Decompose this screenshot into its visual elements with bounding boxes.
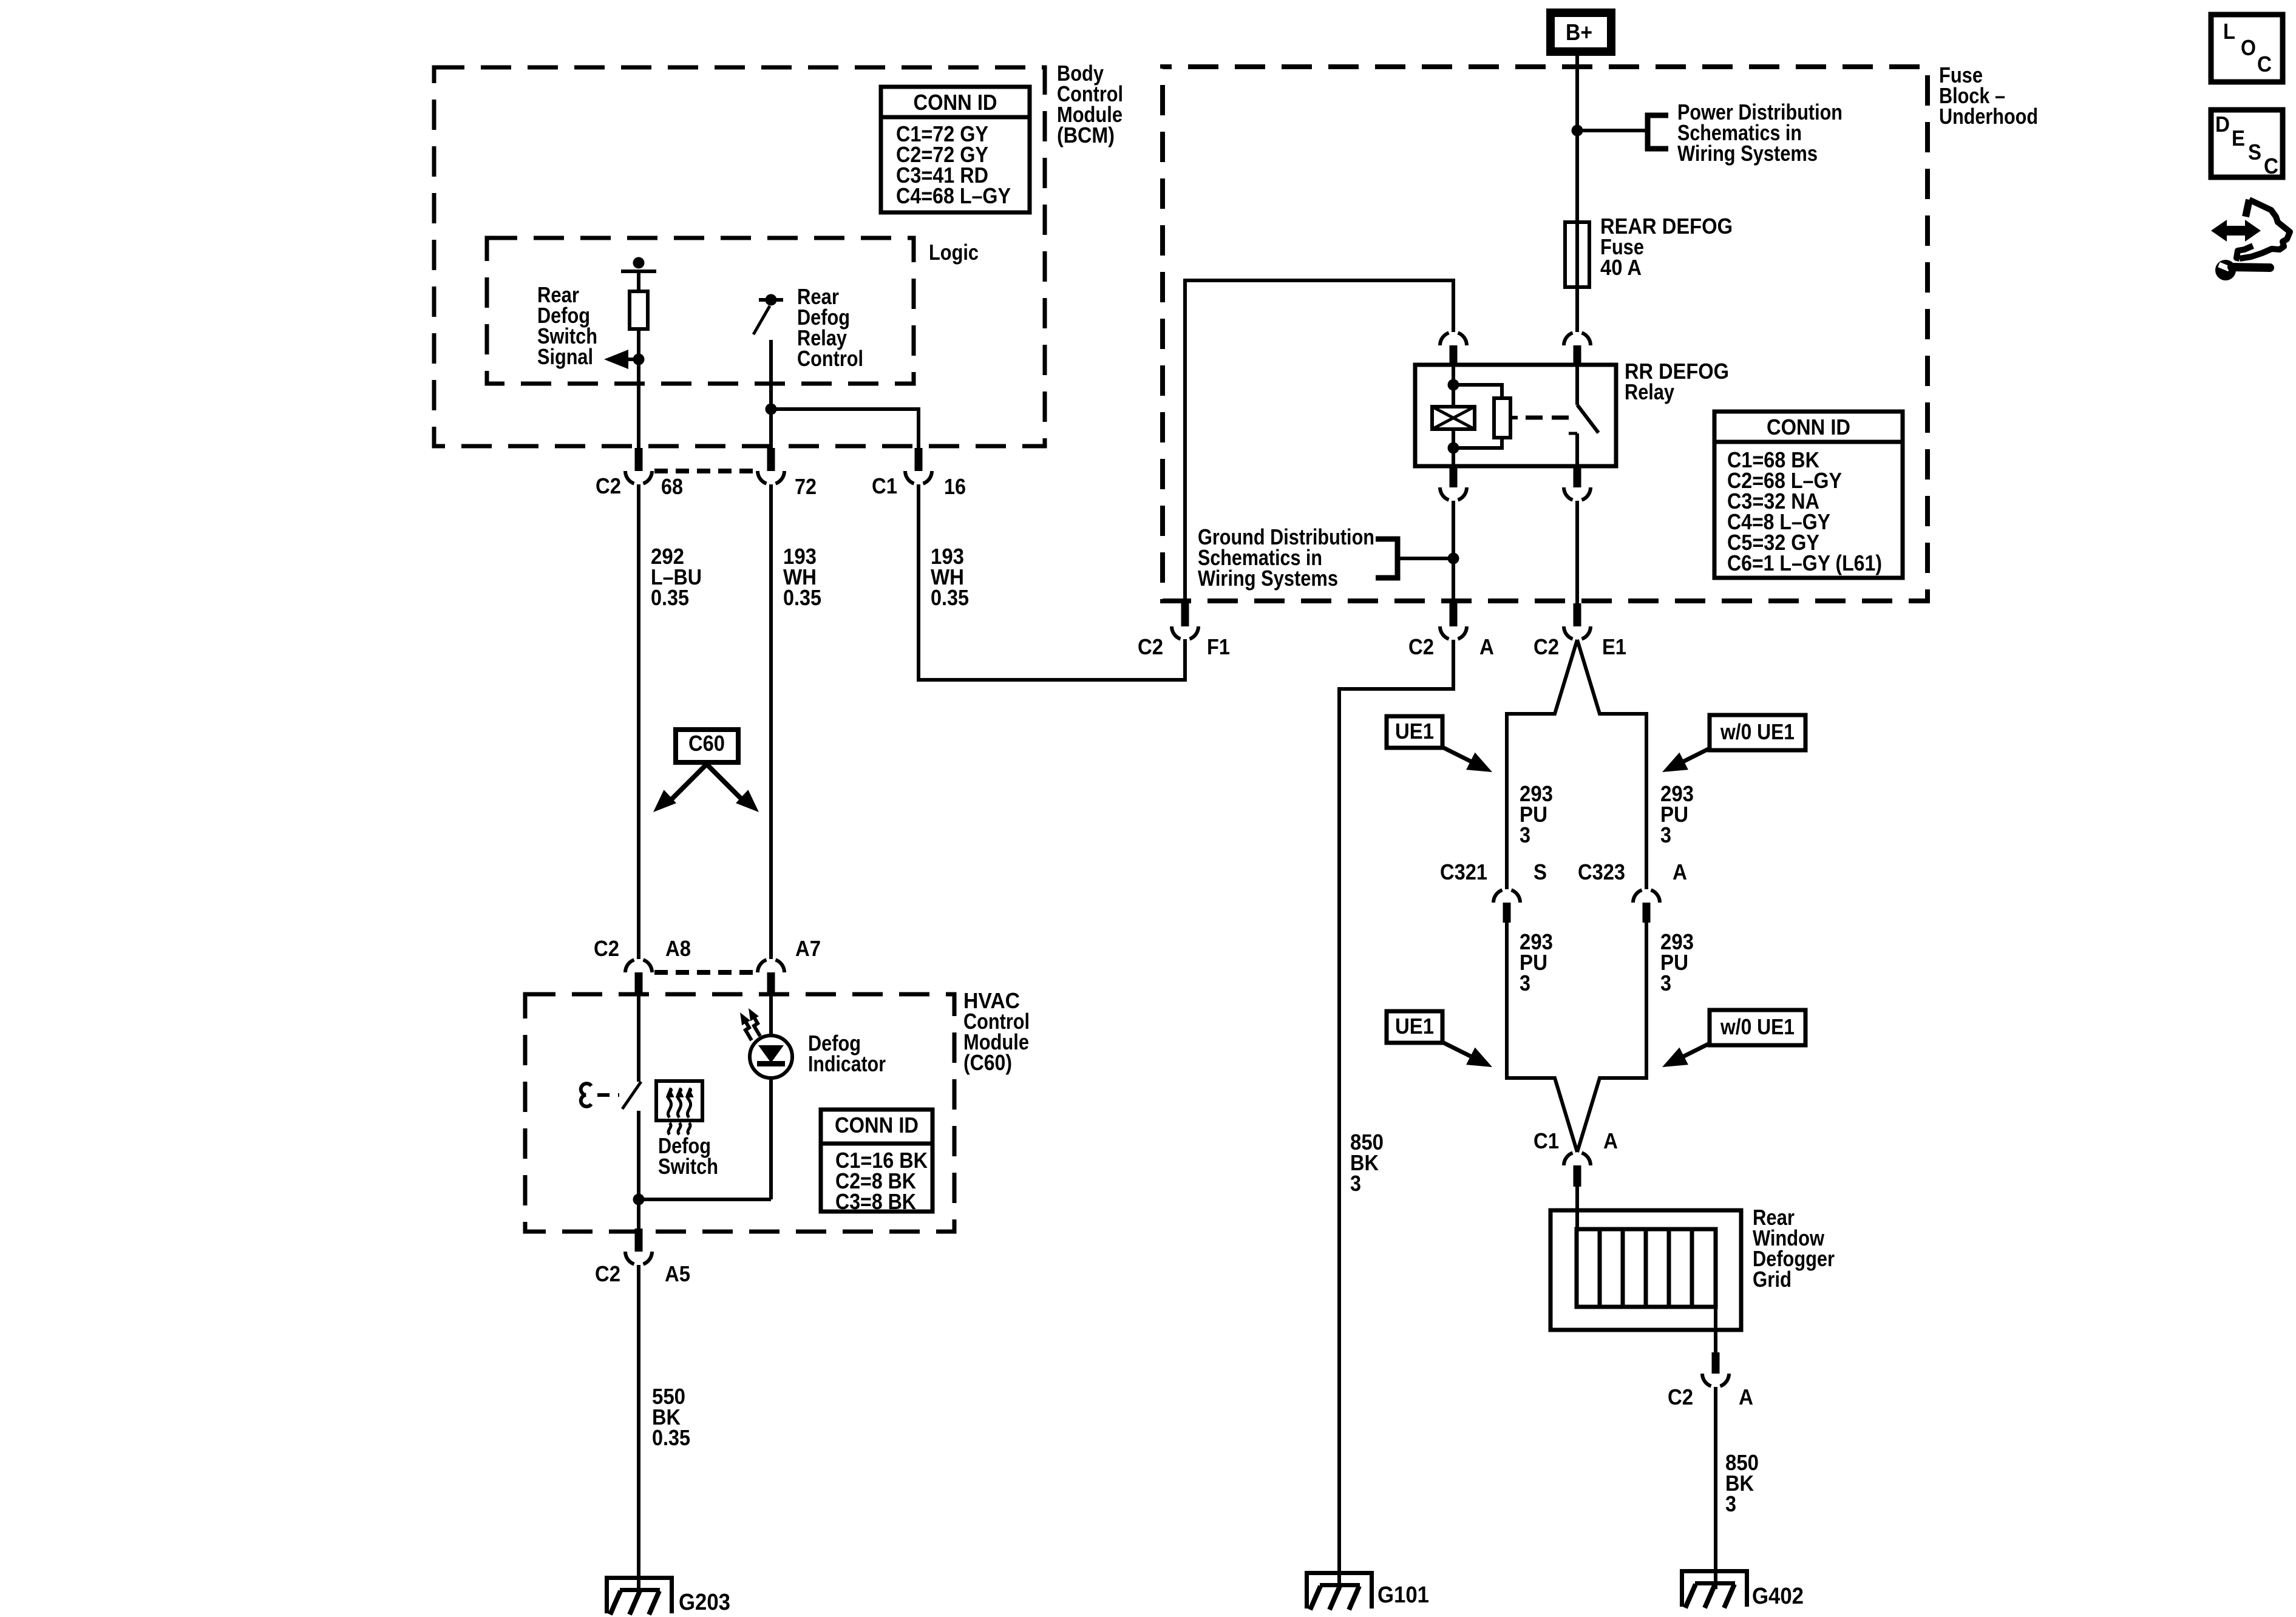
- svg-text:(BCM): (BCM): [1057, 123, 1115, 147]
- svg-text:C321: C321: [1440, 859, 1487, 884]
- relay actuator link: [1510, 416, 1518, 419]
- svg-text:68: 68: [661, 474, 683, 499]
- connector C2 pin A (fuse block): [1450, 603, 1458, 626]
- svg-text:w/0 UE1: w/0 UE1: [1720, 1014, 1795, 1039]
- node relay-control junction: [766, 404, 777, 415]
- svg-text:C4=68 L–GY: C4=68 L–GY: [896, 183, 1011, 208]
- wire power distribution branch: [1577, 129, 1646, 132]
- wire BCM pin 68 internal: [637, 359, 640, 449]
- switch S1 (rear defog relay control driver): [759, 298, 783, 302]
- svg-text:(C60): (C60): [963, 1050, 1012, 1075]
- connector C1 pin 16 (BCM): [915, 448, 923, 471]
- svg-text:C323: C323: [1578, 859, 1625, 884]
- svg-text:E1: E1: [1602, 634, 1626, 659]
- relay suppression resistor: [1453, 385, 1502, 398]
- svg-text:G203: G203: [679, 1590, 730, 1615]
- svg-text:C2: C2: [1533, 634, 1559, 659]
- wire to BCM pin 16: [771, 409, 919, 449]
- svg-text:C6=1 L–GY (L61): C6=1 L–GY (L61): [1727, 551, 1882, 575]
- module box BCM (Body Control Module): [434, 67, 1045, 446]
- svg-text:C2: C2: [595, 1261, 620, 1286]
- connector C2 pin A5 (HVAC): [635, 1229, 643, 1252]
- svg-text:Logic: Logic: [929, 240, 979, 265]
- svg-text:3: 3: [1660, 971, 1671, 995]
- icon LOC: [2211, 15, 2283, 82]
- wire relay 87 down: [1575, 501, 1579, 603]
- table CONN ID (BCM): [881, 87, 1030, 212]
- relay RR DEFOG box: [1415, 365, 1616, 466]
- svg-text:F1: F1: [1207, 634, 1230, 659]
- wire below C321: [1507, 923, 1577, 1152]
- svg-text:Control: Control: [797, 346, 863, 371]
- module box Fuse Block - Underhood: [1163, 67, 1927, 601]
- wire 193 WH (pin 72): [769, 484, 773, 959]
- wire F1 to relay coil: [1185, 280, 1453, 603]
- connector link C2 (BCM): [654, 469, 755, 473]
- svg-text:3: 3: [1520, 971, 1530, 995]
- svg-text:Wiring Systems: Wiring Systems: [1198, 566, 1338, 591]
- wire below C323: [1577, 923, 1646, 1152]
- table CONN ID (fuse block): [1714, 412, 1903, 578]
- svg-text:C2: C2: [1668, 1385, 1693, 1409]
- svg-text:A: A: [1479, 634, 1494, 659]
- svg-text:Indicator: Indicator: [808, 1051, 886, 1076]
- connector C2 pin A8 (HVAC): [635, 972, 643, 995]
- wire 193 WH (pin 16): [919, 484, 1185, 680]
- svg-text:C2: C2: [1408, 634, 1434, 659]
- option tag w/0 UE1 (upper): [1710, 715, 1805, 750]
- rear window defogger grid: [1550, 1210, 1741, 1330]
- option tag w/0 UE1 (lower): [1710, 1010, 1805, 1045]
- svg-text:3: 3: [1725, 1491, 1736, 1516]
- ground G101: [1305, 1571, 1374, 1609]
- svg-text:O: O: [2241, 35, 2256, 60]
- svg-text:CONN ID: CONN ID: [914, 90, 997, 115]
- svg-text:C1: C1: [872, 473, 897, 498]
- svg-text:A: A: [1673, 859, 1687, 884]
- icon schematic navigation (arrows and wrench): [2211, 220, 2261, 242]
- relay switch contact: [1575, 365, 1579, 405]
- connector C321 pin S: [1503, 903, 1511, 923]
- svg-text:3: 3: [1660, 822, 1671, 847]
- svg-text:CONN ID: CONN ID: [1767, 415, 1850, 439]
- ground G203: [605, 1576, 674, 1613]
- svg-text:C3=8 BK: C3=8 BK: [835, 1189, 916, 1214]
- wire E1 split: [1507, 640, 1577, 889]
- connector C323 pin A: [1643, 903, 1651, 923]
- svg-text:0.35: 0.35: [652, 1425, 690, 1450]
- node signal-arrow junction: [633, 354, 645, 365]
- connector tag C60: [676, 730, 738, 762]
- svg-text:3: 3: [1520, 822, 1530, 847]
- wire 292 L-BU: [637, 484, 640, 959]
- wire 550 BK: [637, 1265, 640, 1590]
- svg-text:C2: C2: [594, 936, 619, 961]
- svg-text:C: C: [2264, 154, 2278, 178]
- svg-text:UE1: UE1: [1395, 1014, 1434, 1039]
- ground G402: [1680, 1569, 1749, 1607]
- svg-text:16: 16: [944, 474, 966, 499]
- svg-text:3: 3: [1350, 1171, 1361, 1196]
- power feed B+: [1550, 13, 1611, 52]
- logic box: [487, 238, 914, 384]
- svg-text:E: E: [2232, 126, 2245, 151]
- wire 850 BK to G101: [1339, 640, 1453, 1590]
- svg-text:C: C: [2257, 52, 2272, 76]
- svg-text:0.35: 0.35: [651, 585, 689, 610]
- resistor R1 (rear defog switch pull-up): [621, 269, 656, 273]
- connector C2 pin E1: [1574, 603, 1581, 626]
- svg-text:A: A: [1739, 1385, 1753, 1409]
- svg-text:D: D: [2215, 112, 2230, 137]
- wire fuse to relay: [1575, 287, 1579, 332]
- connector C2 pin A7 (HVAC): [767, 972, 775, 995]
- svg-text:G101: G101: [1377, 1582, 1429, 1608]
- svg-text:G402: G402: [1752, 1584, 1804, 1609]
- icon DESC: [2211, 110, 2283, 177]
- module box HVAC Control Module (C60): [525, 994, 954, 1232]
- svg-text:C2: C2: [1138, 634, 1163, 659]
- svg-text:A8: A8: [665, 936, 691, 961]
- svg-text:C2: C2: [596, 473, 621, 498]
- connector relay pin 30 (top right): [1574, 345, 1581, 366]
- svg-text:C1: C1: [1533, 1128, 1559, 1153]
- svg-text:Switch: Switch: [658, 1154, 718, 1179]
- svg-text:CONN ID: CONN ID: [835, 1113, 919, 1137]
- relay coil: [1452, 365, 1455, 407]
- svg-text:Grid: Grid: [1753, 1267, 1792, 1292]
- node HVAC output junction: [633, 1194, 645, 1205]
- svg-text:0.35: 0.35: [931, 585, 969, 610]
- svg-text:S: S: [1533, 859, 1547, 884]
- wire to pin A5: [637, 1199, 640, 1229]
- wire relay 85 to ground ref: [1452, 501, 1455, 603]
- wire to defogger grid: [1575, 1187, 1579, 1231]
- bracket power distribution reference: [1648, 115, 1668, 149]
- connector C2 pin A (grid): [1712, 1352, 1720, 1374]
- fuse REAR DEFOG 40A: [1565, 222, 1589, 287]
- svg-text:C60: C60: [688, 731, 725, 756]
- connector C2 pin 72 (BCM): [767, 448, 775, 471]
- option tag UE1 (lower): [1387, 1011, 1442, 1043]
- svg-text:A5: A5: [665, 1261, 690, 1286]
- svg-text:A: A: [1603, 1128, 1618, 1153]
- svg-text:w/0 UE1: w/0 UE1: [1720, 719, 1795, 744]
- icon indicator light rays: [743, 1017, 752, 1040]
- switch defog (HVAC): [637, 995, 640, 1082]
- connector relay pin 85 (bottom left): [1450, 466, 1458, 487]
- wire B+ feed: [1575, 56, 1579, 222]
- svg-text:L: L: [2223, 19, 2235, 44]
- table CONN ID (HVAC): [821, 1110, 932, 1212]
- svg-text:S: S: [2248, 140, 2261, 164]
- svg-text:Signal: Signal: [537, 344, 593, 369]
- svg-text:UE1: UE1: [1395, 719, 1434, 744]
- connector C2 pin F1: [1181, 603, 1189, 626]
- connector link C2 (HVAC): [654, 970, 755, 975]
- svg-text:Relay: Relay: [1625, 379, 1674, 404]
- option tag UE1 (upper): [1387, 716, 1442, 748]
- svg-text:72: 72: [795, 474, 817, 499]
- connector relay pin 86 (top left): [1450, 345, 1458, 366]
- node B+ junction: [1572, 125, 1583, 137]
- connector C1 pin A: [1574, 1165, 1581, 1187]
- svg-text:Underhood: Underhood: [1939, 104, 2038, 129]
- connector relay pin 87 (bottom right): [1574, 466, 1581, 487]
- bracket ground distribution reference: [1376, 539, 1398, 578]
- icon defog heater: [656, 1081, 702, 1120]
- svg-text:0.35: 0.35: [783, 585, 821, 610]
- LED defog indicator: [769, 995, 773, 1037]
- wire 850 BK to G402: [1714, 1387, 1717, 1589]
- connector C2 pin 68 (BCM): [635, 448, 643, 471]
- svg-text:A7: A7: [795, 936, 821, 961]
- svg-text:Wiring Systems: Wiring Systems: [1677, 141, 1818, 166]
- svg-text:B+: B+: [1566, 20, 1592, 46]
- svg-text:40 A: 40 A: [1600, 255, 1642, 280]
